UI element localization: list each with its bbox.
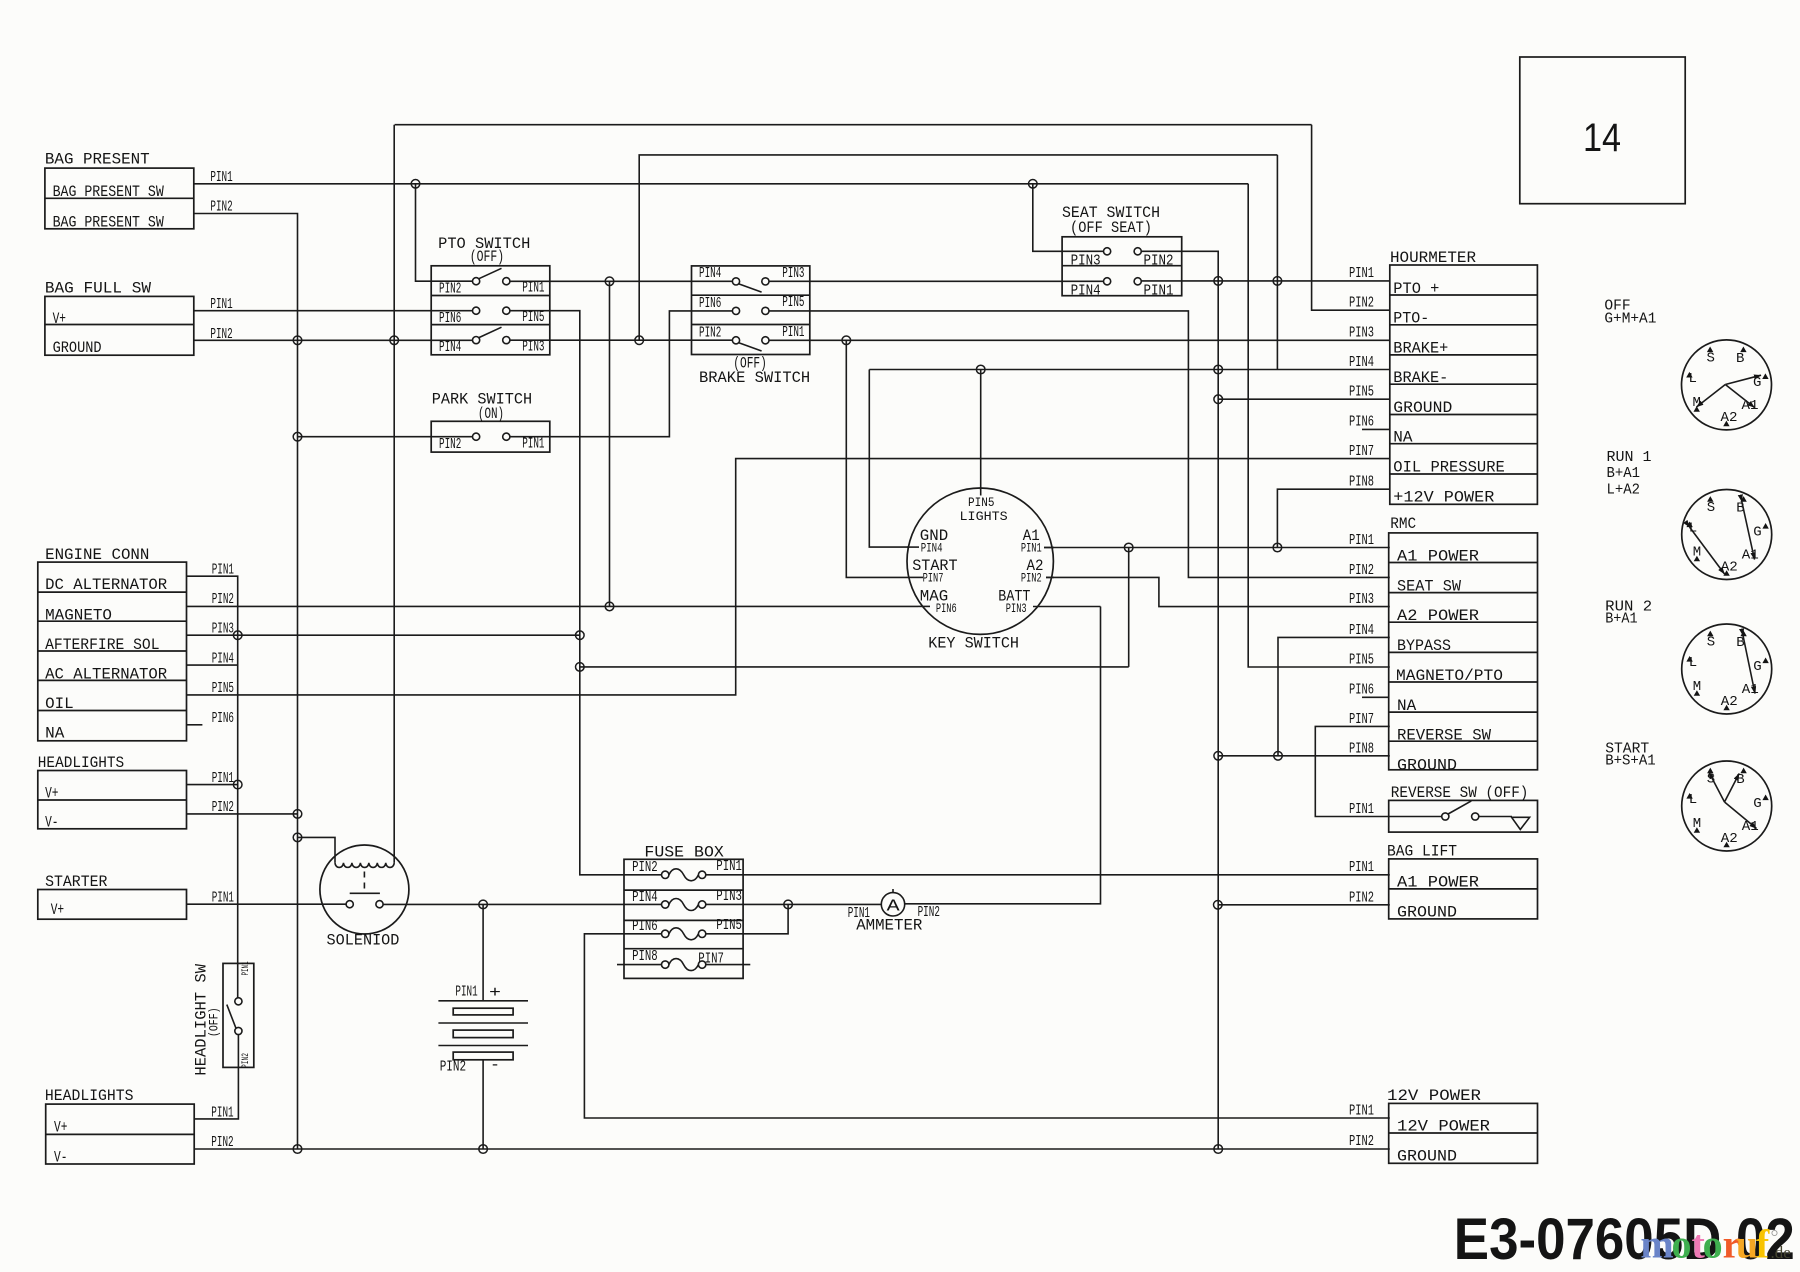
svg-text:BAG LIFT: BAG LIFT: [1387, 843, 1457, 861]
svg-text:PIN2: PIN2: [1349, 890, 1374, 907]
key position diagram RUN 2 circle: [1682, 624, 1772, 714]
wire BRAKE PIN3 to SEAT PIN4: [769, 280, 1104, 282]
wire solenoid to battery and FUSE PIN4: [383, 903, 661, 905]
svg-text:PIN1: PIN1: [1144, 282, 1174, 299]
svg-text:DC ALTERNATOR: DC ALTERNATOR: [45, 576, 167, 594]
fuse box F1: [624, 844, 743, 979]
connector J7 HOURMETER box: [1390, 249, 1538, 506]
svg-text:f: f: [1756, 1222, 1770, 1267]
wire FUSE PIN3 to ammeter PIN1: [706, 903, 882, 905]
wire SEAT PIN2 out to vertical 1218: [1141, 251, 1218, 1149]
svg-text:+12V POWER: +12V POWER: [1393, 488, 1494, 506]
svg-text:RUN 1: RUN 1: [1607, 449, 1652, 466]
junction at BRAKE- / vertical 1218: [1214, 365, 1223, 374]
svg-text:PIN7: PIN7: [1349, 711, 1374, 728]
svg-text:G+M+A1: G+M+A1: [1604, 311, 1656, 328]
svg-text:PIN2: PIN2: [1349, 1133, 1374, 1150]
BRAKE row1 contacts PIN4/PIN3: [732, 278, 739, 285]
svg-text:14: 14: [1583, 116, 1621, 160]
svg-text:(ON): (ON): [478, 405, 504, 423]
connector J10 12V POWER box: [1387, 1087, 1538, 1166]
wire PTO PIN5 down B+ bus: [510, 311, 662, 875]
junction at GROUND wire / coil vertical: [390, 336, 399, 345]
svg-text:MAGNETO: MAGNETO: [45, 607, 112, 625]
junction at solenoid coil branch / vertical 297: [293, 833, 302, 842]
wire BAG LIFT GROUND PIN2: [1218, 904, 1390, 906]
solenoid contacts: [346, 901, 353, 908]
solenoid plunger dashed line: [363, 872, 365, 889]
svg-text:B+A1: B+A1: [1607, 465, 1641, 482]
REVERSE SW contacts: [1442, 813, 1449, 820]
wire BRAKE- down to key GND: [869, 370, 908, 548]
svg-text:PIN4: PIN4: [1349, 354, 1374, 371]
svg-text:PIN4: PIN4: [699, 265, 721, 282]
wire B+ bus horizontal to A1 vertical: [580, 666, 1129, 668]
PTO row1 contacts PIN2/PIN1: [473, 278, 480, 285]
wire RMC BYPASS to RMC GROUND: [1278, 637, 1390, 755]
svg-text:V-: V-: [54, 1149, 67, 1167]
wire key A1 to RMC A1 POWER: [1044, 547, 1390, 549]
junction at AFTERFIRE PIN3 / B+ vertical: [576, 631, 585, 640]
svg-text:o: o: [1703, 1222, 1723, 1267]
wire FUSE PIN6 to 12V POWER PIN1: [584, 934, 1389, 1118]
svg-text:PIN4: PIN4: [921, 540, 943, 555]
PTO row3 contacts PIN4/PIN3: [473, 337, 480, 344]
svg-text:GROUND: GROUND: [53, 339, 102, 357]
svg-text:PIN6: PIN6: [1349, 414, 1374, 431]
junction at starter wire / battery drop: [479, 900, 488, 909]
svg-text:A1 POWER: A1 POWER: [1397, 547, 1479, 565]
SEAT row2 contacts PIN4/PIN1: [1104, 278, 1111, 285]
svg-text:BAG PRESENT: BAG PRESENT: [45, 151, 150, 169]
svg-text:B+S+A1: B+S+A1: [1605, 753, 1656, 770]
svg-text:AFTERFIRE SOL: AFTERFIRE SOL: [45, 636, 159, 654]
svg-text:PIN1: PIN1: [522, 436, 544, 453]
START position arms S B A1: [1709, 772, 1725, 802]
wire PARK PIN1 up to BRAKE PIN6: [510, 311, 733, 437]
wire BRAKE PIN1 to HOURMETER BRAKE+: [769, 339, 1390, 341]
wire vertical top bus down to HOURMETER PIN2: [1312, 125, 1390, 311]
svg-text:AC ALTERNATOR: AC ALTERNATOR: [45, 666, 167, 684]
wire top bus PTO- net: [395, 124, 1312, 126]
svg-text:STARTER: STARTER: [45, 873, 108, 891]
svg-text:GROUND: GROUND: [1393, 399, 1452, 417]
svg-text:PIN5: PIN5: [1349, 384, 1374, 401]
svg-text:m: m: [1640, 1222, 1673, 1267]
svg-text:PIN7: PIN7: [923, 571, 944, 586]
junction at PTO PIN1 wire / vertical 609: [605, 277, 614, 286]
svg-text:OIL PRESSURE: OIL PRESSURE: [1393, 459, 1505, 477]
battery BT1 plates: [438, 1000, 528, 1002]
svg-text:PIN1: PIN1: [782, 324, 804, 341]
svg-text:PIN1: PIN1: [716, 858, 742, 875]
junction at RMC GROUND / vertical 1218: [1214, 752, 1223, 761]
junction at PARK PIN2 / vertical 297: [293, 432, 302, 441]
svg-text:MAGNETO/PTO: MAGNETO/PTO: [1396, 667, 1503, 685]
svg-text:GROUND: GROUND: [1397, 1148, 1457, 1166]
svg-text:NA: NA: [45, 725, 65, 743]
svg-text:PIN5: PIN5: [716, 917, 742, 934]
svg-text:PIN2: PIN2: [1021, 571, 1042, 586]
switch S1 PTO SWITCH box: [431, 235, 550, 355]
svg-text:PTO-: PTO-: [1393, 310, 1429, 328]
fuse row1 contacts and element: [662, 871, 669, 878]
wire key A2 jog to RMC A2 POWER: [1046, 577, 1390, 606]
svg-text:PTO +: PTO +: [1393, 280, 1439, 298]
wire ENGINE MAGNETO to key MAG: [187, 605, 919, 607]
svg-text:V+: V+: [51, 901, 64, 919]
svg-text:PIN1: PIN1: [241, 961, 252, 975]
junction at ground bus / vertical 297: [293, 1145, 302, 1154]
svg-text:o: o: [1672, 1222, 1692, 1267]
wire key BATT down across B+ bus to ammeter: [905, 607, 1101, 904]
wire BAG PRESENT PIN1 to RMC MAGNETO/PTO: [1248, 184, 1390, 667]
svg-text:ENGINE CONN: ENGINE CONN: [45, 546, 149, 564]
svg-text:+: +: [489, 984, 501, 1002]
REVERSE SW wire to ground arrow: [1479, 816, 1512, 818]
solenoid contact bar: [350, 892, 380, 894]
svg-text:RMC: RMC: [1390, 515, 1416, 533]
svg-text:PIN8: PIN8: [632, 948, 658, 965]
wire STARTER V+ to solenoid contact: [187, 903, 347, 905]
svg-text:BAG PRESENT SW: BAG PRESENT SW: [53, 213, 165, 231]
svg-text:NA: NA: [1393, 428, 1413, 446]
svg-text:PIN1: PIN1: [1021, 540, 1042, 555]
svg-text:A1 POWER: A1 POWER: [1397, 874, 1479, 892]
switch S6 HEADLIGHT SW box: [193, 961, 254, 1075]
junction at BAG LIFT GROUND / vertical 1218: [1214, 901, 1223, 910]
svg-text:PIN3: PIN3: [782, 265, 804, 282]
wire branch PIN1 down to PTO PIN2: [416, 184, 473, 281]
svg-text:PIN6: PIN6: [439, 310, 461, 327]
svg-text:PIN3: PIN3: [1349, 325, 1374, 342]
svg-text:PIN1: PIN1: [1349, 859, 1374, 876]
connector J1 BAG PRESENT box: [45, 151, 194, 232]
wire HOURMETER +12V POWER branch: [1277, 489, 1389, 547]
wire HEADLIGHT SW PIN2 down to HEADLIGHTS lower PIN1: [194, 1035, 238, 1119]
key switch internal stub A2: [1046, 576, 1054, 578]
junction at HEADLIGHTS PIN1 / engine vertical: [233, 780, 242, 789]
wire HOURMETER BRAKE- lateral: [869, 369, 1390, 371]
wire BRAKE PIN5 to RMC SEAT SW: [769, 311, 1390, 578]
svg-text:HEADLIGHTS: HEADLIGHTS: [45, 1087, 134, 1105]
sheet number box 14: [1520, 57, 1685, 204]
svg-text:PIN2: PIN2: [632, 859, 658, 876]
wire PARK PIN2 to vertical bus: [298, 436, 473, 438]
wire key LIGHTS up to BRAKE- net: [980, 370, 982, 491]
junction at PTO PIN3 net / y155 bus: [635, 336, 644, 345]
wire HEADLIGHTS PIN1 to vertical: [187, 784, 238, 786]
wire solenoid coil branch: [298, 837, 336, 862]
wire PTO PIN1 to BRAKE PIN4: [510, 280, 733, 282]
svg-text:u: u: [1736, 1222, 1758, 1267]
wire BAG PRESENT PIN2 to vertical bus: [194, 214, 298, 1150]
wire vertical top bus left down to solenoid coil: [393, 125, 395, 863]
svg-text:GROUND: GROUND: [1397, 756, 1457, 774]
ammeter needle arrow: [892, 889, 894, 893]
svg-text:PIN2: PIN2: [1349, 295, 1374, 312]
svg-text:PIN3: PIN3: [1349, 591, 1374, 608]
key switch internal stub GND: [907, 546, 919, 548]
wire A1 net down to B+ bus: [1128, 548, 1130, 667]
connector J2 BAG FULL SW box: [45, 279, 194, 356]
svg-text:PIN4: PIN4: [1349, 622, 1374, 639]
svg-text:PIN6: PIN6: [1349, 682, 1374, 699]
key position diagram OFF circle: [1682, 340, 1772, 430]
svg-text:BAG PRESENT SW: BAG PRESENT SW: [53, 183, 165, 201]
svg-text:PIN5: PIN5: [522, 309, 544, 326]
wire branch PTO PIN1 down to MAGNETO net: [609, 281, 611, 606]
BRAKE row1 lever (open): [739, 284, 762, 292]
svg-text:(OFF SEAT): (OFF SEAT): [1070, 219, 1152, 237]
watermark motoruf.de: [1640, 1222, 1790, 1267]
junction at B+ bus / B+ vertical: [576, 663, 585, 672]
switch S4 SEAT SWITCH box: [1062, 204, 1182, 296]
wire ground bus to 12V POWER GROUND: [194, 1148, 1390, 1150]
wire RMC REVERSE SW PIN7 to reverse switch: [1315, 726, 1441, 816]
wire HOURMETER GROUND PIN5: [1218, 398, 1390, 400]
svg-text:V+: V+: [53, 310, 66, 328]
wire ENGINE AFTERFIRE PIN3 to B+ bus: [187, 634, 580, 636]
svg-text:PIN3: PIN3: [716, 888, 742, 905]
svg-text:PIN5: PIN5: [782, 294, 804, 311]
svg-text:L+A2: L+A2: [1607, 482, 1641, 499]
junction at BRAKE- / LIGHTS vertical: [976, 365, 985, 374]
wire BAG FULL GROUND to PTO PIN4: [194, 339, 473, 341]
svg-text:V+: V+: [45, 785, 58, 803]
key switch internal stub MAG: [918, 605, 930, 607]
OFF position arms G M A1: [1725, 375, 1761, 384]
svg-text:REVERSE SW (OFF): REVERSE SW (OFF): [1391, 784, 1529, 802]
key switch internal stub PIN5: [980, 488, 982, 495]
junction at BRAKE PIN1 / START branch: [842, 336, 851, 345]
junction at BAG PRESENT PIN1 / SEAT PIN3 branch: [1029, 180, 1038, 189]
svg-text:PIN1: PIN1: [522, 280, 544, 297]
wire BAG FULL PIN1 to PTO PIN6: [194, 310, 473, 312]
svg-text:NA: NA: [1397, 697, 1417, 715]
fuse row4 right stub PIN7: [706, 964, 751, 966]
junction at A1 wire / +12V branch: [1273, 543, 1282, 552]
junction at HOURMETER GROUND / vertical 1218: [1214, 395, 1223, 404]
svg-text:PIN1: PIN1: [1349, 1103, 1374, 1120]
junction at HEADLIGHTS PIN2 / vertical 297: [293, 810, 302, 819]
BRAKE row3 lever (open): [739, 343, 762, 351]
svg-text:PIN7: PIN7: [1349, 443, 1374, 460]
wire brake PIN2 feed bus y155: [639, 155, 1277, 340]
wire RMC GROUND PIN8: [1218, 755, 1390, 757]
svg-text:PIN1: PIN1: [1349, 532, 1374, 549]
solenoid coil: [335, 863, 394, 868]
wire ENGINE NA stub PIN6: [187, 724, 203, 726]
PARK contacts PIN2/PIN1: [473, 433, 480, 440]
wire OIL to HOURMETER OIL PRESSURE: [187, 459, 1390, 695]
svg-text:(OFF): (OFF): [207, 1008, 222, 1038]
svg-text:KEY SWITCH: KEY SWITCH: [928, 635, 1019, 653]
svg-text:PIN2: PIN2: [1144, 253, 1174, 270]
switch S2 PARK SWITCH box: [431, 391, 550, 452]
connector J9 BAG LIFT box: [1387, 843, 1538, 922]
connector J3 ENGINE CONN box: [38, 546, 187, 743]
svg-text:PIN2: PIN2: [1349, 562, 1374, 579]
RUN 2 chord B-A1: [1743, 636, 1755, 694]
svg-text:LIGHTS: LIGHTS: [960, 509, 1008, 524]
wire battery positive drop: [482, 904, 484, 1000]
svg-text:PIN1: PIN1: [455, 984, 477, 1001]
svg-text:PIN5: PIN5: [1349, 652, 1374, 669]
key switch internal stub A1: [1044, 547, 1054, 549]
REVERSE SW lever (open): [1448, 801, 1471, 814]
connector J4 HEADLIGHTS box (upper): [38, 754, 187, 832]
svg-text:AMMETER: AMMETER: [856, 917, 923, 935]
HEADLIGHT SW contacts: [235, 998, 242, 1005]
junction at PTO PIN1 net / MAGNETO: [605, 602, 614, 611]
svg-text:PIN2: PIN2: [699, 325, 721, 342]
junction at ground bus / battery negative: [479, 1145, 488, 1154]
BRAKE row3 contacts PIN2/PIN1: [732, 337, 739, 344]
ammeter M1 circle: [881, 893, 904, 916]
svg-text:PIN6: PIN6: [212, 710, 234, 727]
svg-text:A: A: [887, 898, 901, 917]
SEAT row1 contacts PIN3/PIN2: [1104, 248, 1111, 255]
svg-text:PIN4: PIN4: [439, 339, 461, 356]
HEADLIGHT SW lever (open): [227, 1005, 236, 1029]
wire FUSE PIN6 internal right: [706, 933, 743, 935]
svg-text:-: -: [490, 1056, 500, 1074]
svg-text:PIN1: PIN1: [1349, 265, 1374, 282]
fuse row2 contacts and element: [662, 901, 669, 908]
svg-text:REVERSE SW: REVERSE SW: [1397, 727, 1491, 745]
key position diagram START circle: [1682, 761, 1772, 851]
wire FUSE PIN3 jumper to FUSE PIN5: [743, 904, 788, 933]
key switch internal stub START: [910, 576, 923, 578]
junction at HOURMETER PIN1 wire / vertical 1218: [1214, 277, 1223, 286]
svg-text:(OFF): (OFF): [470, 248, 504, 266]
junction at BAG PRESENT PIN1 / PTO PIN2 branch: [411, 180, 420, 189]
wire FUSE PIN1 to BAG LIFT A1 POWER: [706, 874, 1390, 876]
svg-text:PIN2: PIN2: [241, 1053, 252, 1068]
svg-text:12V POWER: 12V POWER: [1397, 1118, 1490, 1136]
RUN 1 chords L-A2 and B-A1: [1690, 527, 1725, 574]
wire PTO PIN3 to BRAKE PIN2: [510, 339, 733, 341]
wire HEADLIGHTS PIN2 to vertical bus: [187, 813, 298, 815]
fuse row4 contacts and element: [662, 961, 669, 968]
junction at ground bus / vertical 1218: [1214, 1145, 1223, 1154]
svg-text:.de: .de: [1771, 1243, 1791, 1262]
wire vertical 1277 down to HOURMETER BRAKE-: [1276, 155, 1278, 370]
key switch SW1 circle: [907, 488, 1053, 634]
wire BAG PRESENT PIN1: [194, 183, 1248, 185]
svg-text:PIN2: PIN2: [439, 281, 461, 298]
svg-text:B+A1: B+A1: [1605, 611, 1637, 628]
NA stub of RMC PIN6: [1362, 696, 1389, 698]
svg-text:PIN1: PIN1: [1349, 801, 1374, 818]
svg-text:BRAKE+: BRAKE+: [1393, 339, 1448, 357]
svg-text:OIL: OIL: [45, 695, 74, 713]
wire ENGINE AC ALT PIN4 to vertical: [187, 664, 238, 666]
fuse row3 contacts and element: [662, 930, 669, 937]
svg-text:GROUND: GROUND: [1397, 904, 1457, 922]
wire battery negative drop to ground bus: [482, 1060, 484, 1149]
svg-text:PIN8: PIN8: [1349, 741, 1374, 758]
svg-text:PIN3: PIN3: [1006, 601, 1027, 616]
junction at HOURMETER PIN1 wire / vertical 1277: [1273, 277, 1282, 286]
svg-text:12V POWER: 12V POWER: [1387, 1087, 1481, 1105]
junction at A1 wire / B+ drop: [1124, 543, 1133, 552]
ground symbol of REVERSE SW: [1512, 817, 1530, 829]
PTO row3 lever (open): [479, 327, 502, 337]
svg-text:BAG FULL SW: BAG FULL SW: [45, 279, 151, 297]
svg-text:PIN2: PIN2: [440, 1059, 466, 1076]
svg-text:PIN6: PIN6: [699, 295, 721, 312]
junction at GROUND wire / vertical 297: [293, 336, 302, 345]
PTO row1 lever (open): [479, 268, 502, 278]
svg-text:PIN3: PIN3: [522, 339, 544, 356]
svg-text:BRAKE-: BRAKE-: [1393, 369, 1448, 387]
svg-text:SEAT SW: SEAT SW: [1397, 577, 1461, 595]
svg-text:HEADLIGHTS: HEADLIGHTS: [38, 754, 124, 772]
svg-text:SOLENIOD: SOLENIOD: [327, 932, 400, 950]
solenoid K1 circle: [320, 845, 409, 934]
fuse row4 left stub PIN8: [617, 964, 662, 966]
connector J6 HEADLIGHTS box (lower): [45, 1087, 194, 1166]
svg-text:PIN6: PIN6: [632, 918, 658, 935]
key switch internal stub BATT: [1033, 606, 1101, 608]
connector J5 STARTER box: [38, 873, 187, 919]
key position diagram RUN 1 circle: [1682, 490, 1772, 580]
svg-text:PIN4: PIN4: [1071, 282, 1101, 299]
junction at RMC GROUND / BYPASS drop: [1274, 752, 1283, 761]
NA stub of HOURMETER PIN6: [1362, 428, 1390, 430]
switch S5 REVERSE SW (OFF) box: [1389, 784, 1538, 832]
junction at AFTERFIRE PIN3 / engine vertical: [233, 631, 242, 640]
svg-text:PIN3: PIN3: [1071, 253, 1101, 270]
wire branch PIN1 down to SEAT PIN3: [1033, 184, 1104, 252]
svg-text:PIN6: PIN6: [936, 601, 957, 616]
svg-text:V-: V-: [45, 814, 58, 832]
wire ENGINE DC ALT PIN1 down to HEADLIGHT SW: [187, 576, 238, 998]
connector J8 RMC box: [1389, 515, 1538, 774]
svg-text:A2 POWER: A2 POWER: [1397, 607, 1479, 625]
svg-text:PIN4: PIN4: [632, 889, 658, 906]
svg-text:V+: V+: [54, 1119, 67, 1137]
switch S3 BRAKE SWITCH box: [692, 266, 811, 387]
PTO row2 contacts PIN6/PIN5: [473, 307, 480, 314]
svg-text:PIN8: PIN8: [1349, 474, 1374, 491]
svg-text:PIN2: PIN2: [212, 591, 234, 608]
wire SEAT PIN1 to HOURMETER PIN1: [1141, 280, 1390, 282]
svg-text:BRAKE SWITCH: BRAKE SWITCH: [699, 369, 810, 387]
svg-text:PIN2: PIN2: [439, 436, 461, 453]
wire branch BRAKE PIN1 down to key START: [846, 340, 910, 577]
junction at starter wire / fuse jumper: [784, 900, 793, 909]
svg-text:PIN5: PIN5: [968, 495, 995, 510]
svg-text:BYPASS: BYPASS: [1397, 637, 1451, 655]
BRAKE row2 contacts PIN6/PIN5: [732, 307, 739, 314]
svg-text:HOURMETER: HOURMETER: [1390, 249, 1476, 267]
